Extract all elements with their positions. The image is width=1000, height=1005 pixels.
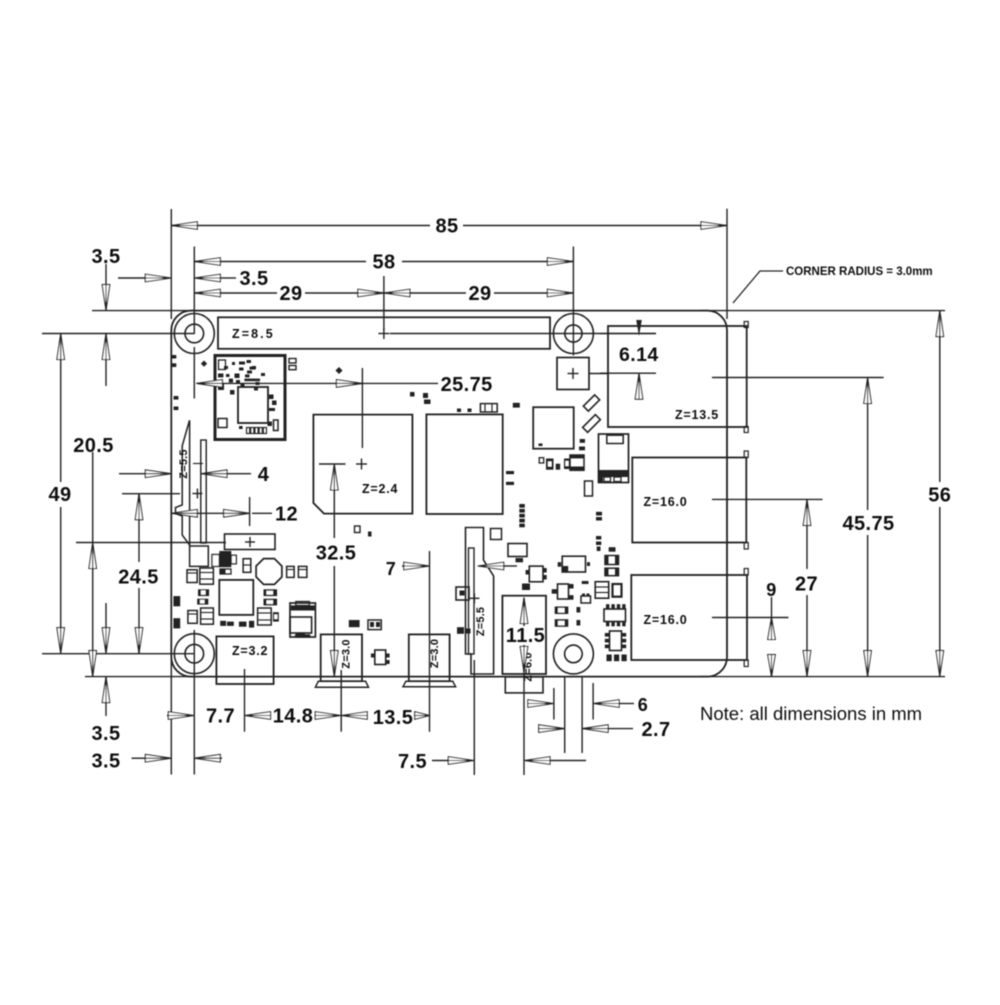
dim 7.5 line bbox=[432, 760, 448, 762]
svg-text:Note: all dimensions in mm: Note: all dimensions in mm bbox=[700, 703, 922, 724]
audio jack Z=6.0 bbox=[502, 596, 546, 674]
wifi module internals bbox=[218, 360, 277, 429]
svg-text:85: 85 bbox=[435, 216, 458, 238]
extension line 6 right bbox=[592, 683, 594, 720]
extension line right hole (top) bbox=[572, 247, 574, 356]
dim 9 line bbox=[771, 597, 773, 618]
SOT near jack bbox=[529, 566, 543, 582]
diagonal component 2 bbox=[583, 415, 601, 433]
USB port lower Z=16.0 bbox=[631, 575, 747, 660]
svg-text:7.7: 7.7 bbox=[206, 706, 235, 728]
SOIC with top/bottom pins bbox=[604, 609, 626, 622]
extension line left hole (below hole to 25.75) bbox=[193, 347, 195, 399]
diamond dot left of RAM bbox=[335, 367, 342, 374]
extension line mid tick 58/29 bbox=[383, 276, 385, 330]
component with + mark (45.75 reference) bbox=[557, 358, 589, 390]
polyfuse with + mark bbox=[225, 534, 276, 550]
svg-text:Z=3.0: Z=3.0 bbox=[341, 639, 353, 668]
svg-text:Z=2.4: Z=2.4 bbox=[362, 482, 398, 496]
RAM chip bbox=[426, 414, 502, 514]
micro-USB connector 2 Z=3.0 bbox=[409, 634, 450, 681]
svg-text:29: 29 bbox=[468, 283, 491, 305]
extension line micro-USB1 center bbox=[340, 670, 342, 732]
reference line y=377.5 (45.75) bbox=[712, 377, 884, 379]
square with dot left of hole bbox=[456, 587, 469, 600]
svg-text:14.8: 14.8 bbox=[273, 706, 314, 728]
svg-text:45.75: 45.75 bbox=[842, 513, 894, 535]
wifi shield tab bbox=[218, 419, 227, 428]
small part left edge b bbox=[172, 363, 177, 367]
SOT-23 bbox=[558, 584, 569, 599]
cap column left a bbox=[187, 570, 197, 583]
svg-text:7: 7 bbox=[386, 559, 396, 579]
extension line board left edge (top) bbox=[170, 209, 172, 319]
switch between micro-USBs bbox=[375, 650, 386, 665]
svg-text:25.75: 25.75 bbox=[441, 374, 493, 396]
extension line top edge to right bbox=[700, 310, 945, 312]
regulator chip bbox=[219, 580, 253, 615]
mounting hole top-right bbox=[553, 314, 593, 354]
small dark row under regulator bbox=[220, 621, 226, 626]
HDMI connector Z=3.2 bbox=[216, 636, 273, 684]
dim 45.75 line bbox=[864, 378, 872, 404]
camera connector outline Z=5.5 bbox=[466, 528, 494, 675]
USB port upper Z=16.0 bbox=[632, 458, 746, 543]
dim 27 line bbox=[803, 499, 811, 525]
dim 3.5 horizontal bottom line bbox=[132, 757, 146, 759]
ethernet right edge ticks bbox=[744, 322, 748, 328]
svg-text:6: 6 bbox=[638, 695, 648, 715]
svg-text:9: 9 bbox=[766, 580, 776, 600]
dim 12 tick bbox=[249, 497, 251, 526]
GPIO header center mark bbox=[378, 333, 389, 335]
dim 32.5 tick at SoC center bbox=[319, 463, 346, 465]
svg-text:Z=5.5: Z=5.5 bbox=[178, 449, 190, 478]
svg-text:6.14: 6.14 bbox=[619, 344, 659, 366]
svg-text:20.5: 20.5 bbox=[73, 435, 114, 457]
part above micro-USB 1 bbox=[290, 617, 312, 633]
SoC center mark bbox=[356, 463, 367, 465]
wifi chip bbox=[238, 387, 268, 423]
dim 20.5 line bbox=[92, 452, 94, 677]
mounting hole bottom-left bbox=[174, 634, 214, 674]
wifi module shield outline bbox=[215, 356, 285, 440]
dim 6 arrows bbox=[528, 700, 554, 708]
box with tab above jack bbox=[508, 544, 527, 557]
part right of micro-USB 1 bbox=[349, 620, 360, 627]
cap row below LAN chip bbox=[539, 458, 544, 463]
extension line left edge below board bbox=[170, 655, 172, 775]
part between micro-USBs bbox=[368, 620, 381, 630]
extension line 24.5 reference y=493.7 bbox=[122, 493, 180, 495]
dim 7 line bbox=[402, 565, 404, 567]
dark part left edge b bbox=[173, 618, 180, 628]
svg-text:58: 58 bbox=[372, 252, 395, 274]
svg-text:56: 56 bbox=[928, 485, 951, 507]
extension line hole center row left margin bbox=[42, 333, 194, 335]
caps right of LAN chip bbox=[580, 439, 585, 443]
dot pair right of SoC top bbox=[410, 392, 415, 397]
dim 32.5 line bbox=[331, 464, 339, 490]
bar right bbox=[609, 547, 616, 552]
dots column a bbox=[596, 536, 601, 540]
dim 13.5 right arrow bbox=[415, 712, 430, 720]
dim 3.5 vertical top arrows bbox=[105, 264, 107, 285]
dim 12 line bbox=[171, 510, 197, 518]
svg-text:Z=13.5: Z=13.5 bbox=[675, 408, 719, 422]
dim 25.75 line bbox=[196, 380, 222, 388]
svg-text:49: 49 bbox=[48, 484, 71, 506]
svg-text:3.5: 3.5 bbox=[239, 268, 268, 290]
dim 56 line bbox=[939, 311, 941, 482]
dots right of micro-USB 2 bbox=[457, 627, 464, 634]
svg-text:11.5: 11.5 bbox=[506, 625, 545, 647]
part left edge of LAN region bbox=[506, 471, 514, 485]
small 2-pad a bbox=[198, 589, 209, 596]
diagonal component 1 bbox=[583, 395, 599, 411]
small part below SOT bbox=[220, 569, 231, 574]
dim 25.75 tick (SoC centerline) bbox=[361, 368, 363, 448]
svg-text:3.5: 3.5 bbox=[91, 751, 120, 773]
dim 25.75 right arrow at SoC centerline) bbox=[336, 380, 362, 388]
svg-text:27: 27 bbox=[795, 574, 818, 596]
dots right of wifi bbox=[289, 359, 296, 364]
camera flex strip bbox=[469, 548, 475, 654]
cap with bands below LAN bbox=[570, 455, 584, 470]
extension line board right edge (top) bbox=[726, 209, 728, 319]
extension line bottom hole row left margin bbox=[42, 653, 194, 655]
extension line hole center row right (through right hole to 6.14 tick) bbox=[390, 333, 656, 335]
svg-text:7.5: 7.5 bbox=[398, 751, 427, 773]
dim 3.5 top-left line bbox=[118, 277, 145, 279]
extension line top edge to left bbox=[92, 310, 195, 312]
svg-text:Z=3.0: Z=3.0 bbox=[429, 639, 441, 668]
dark part left edge a bbox=[173, 596, 180, 606]
SoC BCM chip Z=2.4 bbox=[313, 415, 412, 514]
small part below cap-with-bands bbox=[585, 481, 593, 496]
small bar above SOT-23 bbox=[582, 581, 589, 584]
stacked caps left of BR hole bbox=[555, 607, 569, 615]
board outline 85x56 rounded corners bbox=[171, 311, 727, 677]
DSI display connector outline Z=5.5 bbox=[176, 421, 209, 566]
capacitor near USB ports bbox=[599, 434, 629, 483]
inductor octagon bbox=[256, 559, 282, 585]
extension line micro-USB2 center x=429.5 bbox=[429, 551, 431, 732]
corner radius leader line bbox=[733, 271, 783, 303]
dim 7.7 arrow at hole line bbox=[167, 715, 168, 717]
dim 6.14 arrows bbox=[636, 320, 642, 336]
extension line HDMI center bbox=[244, 669, 246, 732]
small part left edge a bbox=[172, 355, 177, 359]
tantalum cap large bbox=[290, 603, 315, 637]
dim 6.14 lower tick bbox=[600, 372, 656, 374]
tantalum b bbox=[201, 608, 214, 624]
svg-text:Z=3.2: Z=3.2 bbox=[232, 644, 268, 658]
2-pad pair right x bbox=[264, 589, 278, 596]
dim 29 right line bbox=[384, 292, 466, 294]
dim 11.5 line bbox=[520, 598, 528, 624]
tantalum c right of regulator bbox=[258, 608, 272, 625]
extension line left hole below board bbox=[193, 630, 195, 775]
svg-text:4: 4 bbox=[258, 464, 270, 486]
dim 14.8 arrows bbox=[245, 712, 271, 720]
dim 49 line bbox=[60, 334, 62, 483]
diode package bbox=[562, 556, 585, 572]
svg-text:Z=16.0: Z=16.0 bbox=[644, 495, 688, 509]
small 2-pad b bbox=[197, 599, 208, 605]
extension line 6 left bbox=[553, 688, 555, 720]
small pads left edge mid bbox=[174, 396, 179, 400]
cap c1 bbox=[243, 559, 251, 573]
svg-text:24.5: 24.5 bbox=[118, 567, 159, 589]
dim 24.5 line bbox=[138, 494, 140, 562]
camera center mark bbox=[469, 597, 479, 599]
dim 6.14 upper tick bbox=[600, 333, 656, 335]
dim 58 line bbox=[194, 261, 366, 263]
caps right of inductor bbox=[287, 566, 295, 577]
small part right of tantalum c bbox=[273, 612, 279, 621]
dim 85 line bbox=[171, 225, 430, 227]
3-band inductor bbox=[595, 582, 609, 599]
USB lower right edge ticks bbox=[744, 569, 748, 576]
part right of camera top bbox=[491, 529, 502, 540]
dot below SOT bbox=[522, 584, 530, 591]
extension line bottom edge to right bbox=[700, 676, 945, 678]
svg-text:3.5: 3.5 bbox=[91, 723, 120, 745]
dot column under RAM bbox=[519, 504, 525, 508]
3 squares bottom bbox=[607, 655, 612, 662]
extension line left hole (top) bbox=[193, 247, 195, 335]
extension line camera center below board bbox=[473, 660, 475, 775]
svg-text:32.5: 32.5 bbox=[316, 543, 357, 565]
extension line bottom edge to left bbox=[85, 676, 195, 678]
dim 3.5 vertical bottom arrows bbox=[105, 603, 107, 628]
extension line 2.7 right bbox=[581, 677, 583, 753]
svg-text:CORNER RADIUS = 3.0mm: CORNER RADIUS = 3.0mm bbox=[786, 266, 933, 278]
dim 29 left line bbox=[194, 292, 277, 294]
tantalum a bbox=[200, 568, 214, 584]
DSI center mark bbox=[192, 493, 202, 495]
cap pair right column bbox=[605, 556, 619, 565]
cap column left b bbox=[188, 611, 197, 624]
dots below SoC bbox=[355, 526, 361, 533]
svg-text:Z=5.5: Z=5.5 bbox=[475, 607, 487, 636]
8-pin chip vertical bbox=[610, 631, 622, 651]
dot pair b bbox=[596, 512, 602, 516]
mounting hole top-left bbox=[174, 314, 214, 354]
SOT component a bbox=[219, 551, 231, 567]
reference line y=617.5 (9) bbox=[712, 617, 788, 619]
dim 4 tick bbox=[193, 463, 203, 465]
line from + to ethernet bbox=[589, 373, 608, 375]
extension line 20.5 reference y=542.5 bbox=[76, 542, 226, 544]
reference line y=499.4 (27) bbox=[712, 498, 823, 500]
dim 4 line bbox=[119, 473, 145, 475]
small cap right of RAM bbox=[513, 403, 520, 408]
micro-USB connector 1 Z=3.0 bbox=[321, 634, 362, 681]
GPIO header J8 Z=8.5 bbox=[218, 317, 550, 349]
dim 2.7 arrows bbox=[539, 725, 565, 733]
diamond dot below GPIO bbox=[201, 360, 207, 366]
dots above RAM bbox=[457, 409, 461, 413]
svg-text:Z=8.5: Z=8.5 bbox=[232, 327, 275, 341]
svg-text:13.5: 13.5 bbox=[373, 707, 414, 729]
extension line 2.7 left bbox=[564, 677, 566, 753]
svg-text:2.7: 2.7 bbox=[641, 719, 670, 741]
ethernet jack Z=13.5 bbox=[608, 326, 747, 427]
svg-text:29: 29 bbox=[279, 283, 302, 305]
svg-text:Z=16.0: Z=16.0 bbox=[644, 613, 688, 627]
hollow rect right bbox=[613, 584, 622, 597]
svg-text:12: 12 bbox=[275, 503, 298, 525]
mounting hole bottom-right bbox=[553, 634, 593, 674]
LAN/USB chip bbox=[533, 407, 574, 449]
DSI flex strip bbox=[201, 440, 206, 543]
component above RAM bbox=[480, 404, 497, 412]
crystal with tabs bbox=[581, 596, 591, 603]
wifi bottom pads bbox=[247, 428, 250, 434]
USB upper right edge ticks bbox=[744, 451, 748, 458]
